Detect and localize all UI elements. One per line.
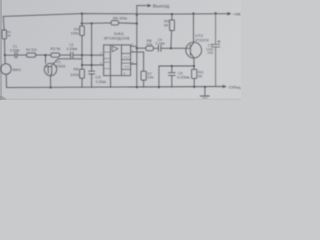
wire A segment 4 (60, 54, 71, 56)
wire VT1 source to ground (50, 76, 52, 88)
arrow common head (223, 85, 227, 89)
wire left rail upper (2, 16, 5, 30)
left scan shadow edge (0, 0, 2, 100)
wire A segment 3 (36, 54, 51, 56)
junction (158.9,87.2) (158, 86, 160, 88)
junction (194.2,87) (193, 86, 195, 88)
scan corner shadow (0, 96, 6, 103)
wire R5 top lead (81, 65, 83, 69)
wire VT1 gate branch (44, 55, 46, 63)
wire output run 2 (154, 47, 158, 49)
resistor R6 (111, 21, 119, 26)
wire B step down (81, 59, 83, 65)
transistor VT1 (44, 63, 56, 75)
wire R5 bottom lead (81, 78, 83, 87)
wire column R4 lower (81, 35, 83, 58)
wire column R4 from rail (81, 14, 83, 26)
junction (91.6,65.05) (91, 64, 93, 66)
wire left drop of node 66 (158, 66, 160, 87)
junction (171.9,14.1) (171, 13, 173, 15)
wire op-amp output stub pin 6 (131, 45, 137, 47)
wire C6 column top (215, 13, 217, 44)
junction (81.7,23.4) (81, 22, 83, 24)
junction (136.8,23.5) (136, 22, 138, 24)
wire R10 bottom lead (193, 78, 195, 87)
wire B lower run to op-amp pin 3 (82, 64, 104, 66)
wire output column (136, 6, 138, 88)
wire output tap arrow (137, 5, 148, 7)
wire left rail mid (4, 39, 7, 64)
resistor R4 (80, 26, 85, 36)
capacitor C3 (89, 71, 95, 74)
transistor VT2 (186, 42, 202, 58)
junction (170.9,48.3) (170, 47, 172, 49)
wire bottom common rail (7, 87, 223, 88)
junction (136.8,48.2) (136, 47, 138, 49)
wire C5 top lead (171, 66, 173, 72)
resistor R5 (80, 69, 85, 78)
wire C5 bottom lead (171, 76, 173, 88)
wire VT2 emitter column from rail (192, 13, 194, 42)
wire A segment 5 to op-amp pin 2 (73, 54, 103, 56)
wire R9 column bottom (170, 31, 173, 49)
wire output run (137, 47, 146, 49)
wire R7 top lead (143, 52, 145, 71)
wire feedback run (82, 22, 111, 25)
junction (194,66) (193, 65, 195, 67)
junction (4.8,55.15) (4, 54, 6, 56)
wire op-amp stub pin 1 (131, 51, 144, 53)
junction (82,65) (81, 64, 83, 66)
wire C6 column bottom (215, 47, 217, 86)
wire signal A segment 1 (5, 54, 15, 56)
microphone BM1 (1, 64, 12, 75)
wire node collector horizontal (159, 65, 194, 67)
wire op-amp stub pin 5 (131, 63, 137, 65)
junction (136.8,87.3) (136, 86, 138, 88)
op-amp DA1 (104, 45, 131, 76)
junction (204.9,87) (204, 86, 206, 88)
junction (82,55.1) (81, 54, 83, 56)
junction (82,13.6) (81, 13, 83, 15)
resistor R3 (51, 53, 60, 57)
junction (45.4,55.1) (44, 54, 46, 56)
wire R9 column top (171, 14, 173, 20)
wire VT2 collector column (193, 58, 195, 69)
junction (215.6,13.2) (215, 12, 217, 14)
junction (50.6,87.5) (50, 87, 52, 89)
junction (91.6,23.4) (91, 22, 93, 24)
junction (136.8,14.9) (136, 14, 138, 16)
wire op-amp bottom pin 4 (110, 76, 112, 88)
ground chassis symbol (200, 87, 209, 96)
wire output run 3 to VT2 base (161, 47, 190, 49)
resistor R2 (27, 53, 36, 57)
capacitor C2 (71, 52, 73, 58)
wire VT1 drain diagonal (53, 59, 58, 65)
resistor R8 (146, 46, 154, 51)
capacitor C1 (15, 52, 17, 58)
paper grain noise (0, 0, 241, 100)
wire R7 bottom lead (143, 80, 145, 87)
capacitor C5 (168, 73, 175, 76)
wire B upper run (58, 58, 82, 60)
resistor R9 (170, 20, 175, 31)
resistor R7 (141, 71, 146, 80)
resistor R1 (2, 30, 6, 39)
wire top supply rail (3, 14, 227, 17)
junction (91.6,55.15) (91, 54, 93, 56)
wire feedback run right (119, 22, 137, 25)
resistor R10 (192, 69, 197, 78)
junction (193.4,13.4) (192, 12, 194, 14)
capacitor C4 (158, 45, 161, 51)
wire A segment 2 (18, 54, 27, 56)
wire C3 column lower (91, 74, 93, 87)
capacitor C6 polarized (212, 44, 220, 47)
paper background (0, 0, 241, 100)
wire C3 column upper (91, 23, 93, 71)
arrow +9V head (227, 12, 231, 16)
junction (171.8,66) (171, 65, 173, 67)
wire left rail lower (5, 74, 7, 87)
arrow output head (148, 4, 152, 8)
